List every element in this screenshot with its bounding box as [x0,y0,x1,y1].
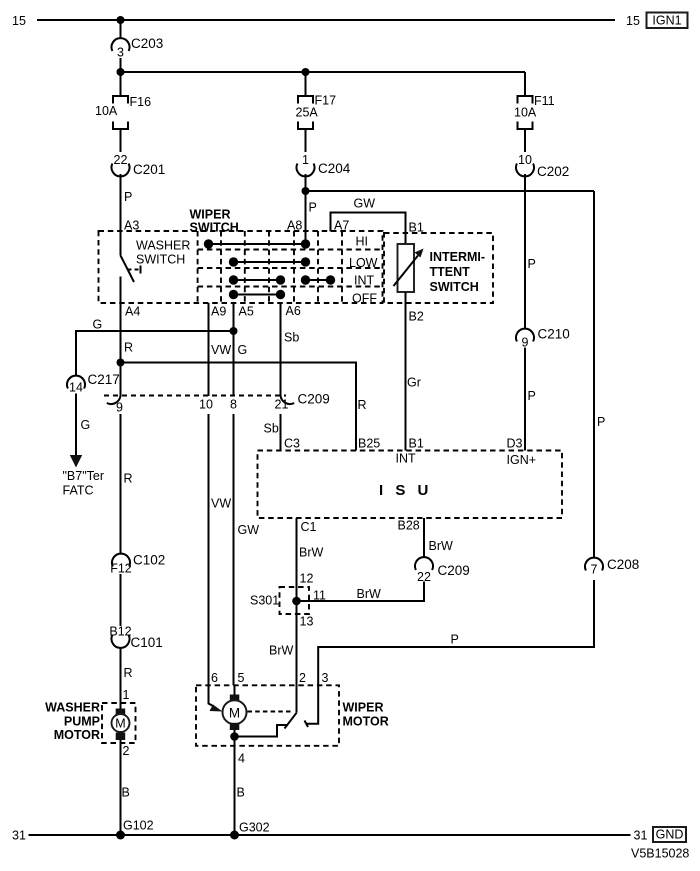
wire C208 to wiper motor pin 3 [318,580,594,685]
junction bus/F17 [302,68,310,76]
wiper motor M2 [223,685,247,730]
bus wire y72 [121,71,526,73]
svg-text:SWITCH: SWITCH [136,253,185,267]
svg-text:P: P [528,389,536,403]
svg-text:P: P [124,190,132,204]
wire ISU C1 to S301 pin 12 and wiper motor pin 2 [296,518,298,713]
net label "B7"Ter FATC [63,469,105,498]
junction S301 [292,597,301,606]
svg-text:5: 5 [238,671,245,685]
ground G102 [116,819,154,840]
svg-text:C210: C210 [538,327,570,342]
wire P right column down to C208 [593,191,595,558]
svg-text:R: R [124,472,133,486]
svg-text:31: 31 [12,829,26,843]
junction G branch [230,327,238,335]
wire junction to wiper switch A8 and HI contact [305,191,307,244]
svg-text:B28: B28 [398,519,420,533]
connector C101 pin B12 [109,625,162,651]
svg-text:C209: C209 [438,563,470,578]
svg-text:B1: B1 [409,437,424,451]
svg-text:C3: C3 [284,437,300,451]
svg-text:25A: 25A [296,106,319,120]
splice S301 box [250,587,309,614]
svg-text:C217: C217 [88,372,120,387]
svg-text:M: M [229,706,240,721]
svg-text:HI: HI [356,235,369,249]
wire C204 down to junction [305,174,307,191]
junction on rail 15 at C203 tap [117,16,125,24]
wiper motor low-speed feed arrow [209,685,223,711]
svg-text:B2: B2 [409,310,424,324]
wire bus to F16 [120,72,122,96]
wire A5 to C209 pin 8 [233,303,235,396]
svg-text:13: 13 [300,615,314,629]
connector C202 pin 10 [516,153,569,179]
net box GND [653,827,686,842]
svg-text:"B7"Ter: "B7"Ter [63,469,105,483]
svg-text:IGN1: IGN1 [652,14,681,28]
wiper switch row line HI/LOW [198,249,383,251]
wiper switch column divider 3 [244,231,246,303]
svg-text:GW: GW [238,523,260,537]
svg-text:I S U: I S U [379,482,432,499]
svg-text:B25: B25 [358,437,380,451]
svg-text:FATC: FATC [63,484,94,498]
wire C203 to bus [120,58,122,72]
C209 pin 9 arc [107,396,123,415]
svg-text:VW: VW [211,343,231,357]
park switch mechanical link (dashed) [248,711,293,713]
svg-text:G: G [81,418,91,432]
wire F17 to C204 [305,129,307,152]
contact bar OFF [229,290,285,299]
svg-text:1: 1 [302,153,309,167]
svg-text:BrW: BrW [269,644,294,658]
svg-text:C202: C202 [537,164,569,179]
wire C210 to ISU D3 [524,348,526,451]
svg-text:P: P [597,415,605,429]
wire A6 to C209 pin 21 [280,303,282,396]
svg-text:P: P [528,257,536,271]
svg-text:GND: GND [656,828,684,842]
svg-text:A4: A4 [125,305,140,319]
svg-text:M: M [115,717,125,731]
wire rail15 to C203 [120,20,122,38]
svg-text:INTERMI-: INTERMI- [430,250,486,264]
svg-text:TTENT: TTENT [430,265,471,279]
connector C217 pin 14 [67,372,120,395]
svg-text:C1: C1 [301,520,317,534]
svg-text:LOW: LOW [349,256,378,270]
connector C204 pin 1 [297,153,351,176]
svg-text:BrW: BrW [299,546,324,560]
svg-text:F16: F16 [130,95,152,109]
svg-text:BrW: BrW [357,587,382,601]
svg-text:V5B15028: V5B15028 [631,847,689,861]
svg-text:F11: F11 [534,94,555,108]
svg-text:C203: C203 [131,36,163,51]
fuse F11 10A [514,94,555,129]
svg-text:2: 2 [123,744,130,758]
svg-text:R: R [358,398,367,412]
power rail 15 (top bus line) [37,19,615,21]
connector C201 pin 22 [112,153,166,177]
connector C209 row (dashed) [104,395,286,397]
park switch right contact from pin 3 [305,685,319,727]
svg-text:C201: C201 [133,162,165,177]
wiper switch column divider 1 [197,231,199,303]
svg-text:A9: A9 [211,305,226,319]
svg-text:A8: A8 [287,219,302,233]
svg-text:WIPER: WIPER [343,701,384,715]
svg-text:G: G [238,343,248,357]
svg-text:8: 8 [230,398,237,412]
svg-text:VW: VW [211,497,231,511]
ISU box [258,451,563,519]
svg-text:G: G [93,318,103,332]
wiper switch box [99,208,383,304]
svg-text:C204: C204 [318,161,351,176]
svg-text:10: 10 [518,153,532,167]
svg-text:6: 6 [211,671,218,685]
svg-text:BrW: BrW [429,539,454,553]
svg-text:GW: GW [354,197,376,211]
svg-text:10A: 10A [514,106,537,120]
svg-text:WASHER: WASHER [136,239,190,253]
svg-text:G102: G102 [123,819,154,833]
svg-text:R: R [124,666,133,680]
svg-text:C102: C102 [133,553,165,568]
svg-text:MOTOR: MOTOR [54,728,100,742]
svg-text:F12: F12 [110,562,132,576]
svg-text:A6: A6 [286,304,301,318]
wire G branch to C217 [76,331,234,376]
washer pump motor box [45,701,135,744]
junction bus/F16 [117,68,125,76]
washer pump motor M1 [112,709,130,741]
contact bar LOW [229,257,310,266]
contact bar INT left [229,275,285,284]
wire C209 pin22 to ISU B28 [423,518,425,557]
junction P node [302,187,310,195]
svg-text:1: 1 [123,688,130,702]
wiper motor brush to park junction [234,730,236,737]
wiper switch column divider 4 [268,231,270,303]
svg-text:A3: A3 [124,219,139,233]
svg-text:C208: C208 [607,557,639,572]
svg-text:WIPER: WIPER [190,208,231,222]
svg-text:15: 15 [626,14,640,28]
svg-text:MOTOR: MOTOR [343,715,389,729]
wire C201 to washer switch A3 [120,174,122,256]
connector C209 pin 22 [415,557,470,584]
washer switch blade [121,256,135,283]
wiper motor box [196,685,389,746]
junction R branch [117,359,125,367]
svg-text:B: B [122,786,130,800]
svg-text:INT: INT [354,274,375,288]
wiper switch column divider 2 [220,231,222,303]
svg-text:B: B [237,786,245,800]
wire S301 to C209 pin 22 [297,582,425,602]
wire F11 to C202 [524,129,526,152]
net box IGN1 [647,13,688,29]
bus wire y191 P to right [306,190,595,192]
svg-text:10: 10 [199,398,213,412]
wire pin 4 to G302 [234,737,236,836]
wire washer pump to G102 [120,740,122,835]
svg-text:R: R [124,341,133,355]
svg-text:P: P [451,633,459,647]
svg-text:22: 22 [417,570,431,584]
intermittent switch box [384,233,493,303]
svg-text:WASHER: WASHER [45,701,100,715]
svg-text:PUMP: PUMP [64,715,100,729]
svg-text:10A: 10A [95,104,118,118]
wire R branch to ISU B25 [121,363,357,451]
wire bus to F17 [305,72,307,96]
svg-text:A5: A5 [239,305,254,319]
junction park contact [230,732,239,741]
svg-text:OFF: OFF [352,292,377,306]
wiper switch row line LOW/INT [198,267,383,269]
C209 pin 21 arc [275,392,330,412]
wire F16 to C201 [120,129,122,152]
svg-text:9: 9 [522,336,529,350]
wire pin9 to C102 [120,414,122,554]
wire C101 to washer pump [120,648,122,709]
ground rail 31 [29,834,631,836]
contact bar INT right [301,275,335,284]
svg-text:SWITCH: SWITCH [430,280,479,294]
wire B2 to ISU B1 [405,292,407,451]
washer switch actuator dashes [128,266,141,274]
fuse F16 10A [95,95,151,129]
svg-text:31: 31 [634,829,648,843]
svg-text:21: 21 [275,398,289,412]
svg-text:INT: INT [396,452,417,466]
svg-text:9: 9 [116,401,123,415]
variable resistor (intermittent switch) [394,244,424,292]
wire C202 down to C210 [524,174,526,329]
wiper switch column divider 6 [317,231,319,303]
washer switch lower contact wire to A4 [120,277,122,397]
svg-text:14: 14 [69,381,83,395]
svg-text:IGN+: IGN+ [507,453,537,467]
wire C217 to FATC arrow [75,394,77,456]
washer switch label [136,239,190,267]
svg-text:3: 3 [322,671,329,685]
svg-text:12: 12 [300,572,314,586]
wiper switch column divider 7 [341,231,343,303]
svg-text:2: 2 [299,671,306,685]
wiper switch row line INT/OFF [198,286,383,288]
connector C102 pin F12 [110,553,165,576]
svg-text:G302: G302 [239,821,270,835]
connector C210 pin 9 [516,327,570,350]
svg-text:4: 4 [238,752,245,766]
wiper switch column divider 5 [293,231,295,303]
svg-text:22: 22 [114,153,128,167]
svg-text:Sb: Sb [284,331,299,345]
connector C203 pin 3 [112,36,164,60]
park switch blade [285,713,297,729]
svg-text:3: 3 [117,46,124,60]
svg-text:S301: S301 [250,594,279,608]
svg-text:Sb: Sb [264,422,279,436]
arrow to FATC [70,455,82,468]
connector C208 pin 7 [585,557,639,577]
svg-text:P: P [309,201,317,215]
park switch left contact [235,725,288,737]
ground G302 [230,821,270,840]
svg-text:15: 15 [12,14,26,28]
fuse F17 25A [296,94,337,130]
wire bus corner down to F11 [524,72,526,96]
wire pin10 to wiper motor pin 6 [208,414,210,685]
wire C102 to C101 [120,574,122,626]
wire GW bracket A7 to B1 [331,197,406,245]
wire A9 to C209 pin 10 [208,303,210,396]
contact bar HI [204,239,310,248]
svg-text:Gr: Gr [407,376,421,390]
svg-text:D3: D3 [507,437,523,451]
svg-text:C209: C209 [298,392,330,407]
svg-text:7: 7 [591,563,598,577]
wire pin21 to ISU C3 [280,414,282,451]
svg-text:C101: C101 [131,635,163,650]
wire pin8 to wiper motor pin 5 [233,414,235,685]
